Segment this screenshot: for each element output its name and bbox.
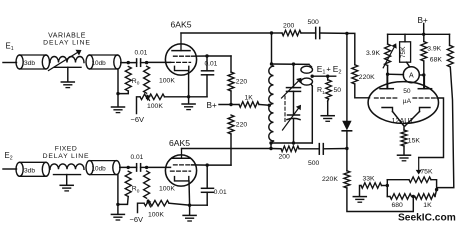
wire varcap column upper xyxy=(293,64,295,88)
potentiometer 100K ch2 xyxy=(144,200,169,206)
wire left tie xyxy=(386,180,388,197)
svg-text:6AK5: 6AK5 xyxy=(169,138,190,148)
attenuator 10db pad (ch1) xyxy=(86,55,121,69)
resistor R0 (ch2) xyxy=(125,171,131,196)
label R1 xyxy=(317,87,325,96)
resistor 15K cathode xyxy=(401,130,407,146)
svg-text:15K: 15K xyxy=(408,137,421,144)
attenuator 3db pad (ch2) xyxy=(16,162,50,176)
wire 200 to 500 (top) xyxy=(301,32,316,34)
label 220 ch1 xyxy=(236,79,248,86)
resistor 200 (mid) xyxy=(281,146,299,152)
label 50 (R1) xyxy=(334,87,342,94)
node cathode2 junction xyxy=(188,204,191,207)
label 68K xyxy=(430,57,443,64)
label 100K grid ch1 xyxy=(159,78,175,85)
watermark SeekIC.com xyxy=(398,213,456,224)
wire 500 to right rail xyxy=(320,32,347,34)
label 200 mid xyxy=(279,153,291,160)
potentiometer 100K ch1 xyxy=(140,94,165,100)
wire 1K right xyxy=(435,190,437,197)
fixed delay line coil xyxy=(50,164,84,169)
node A2 junction xyxy=(127,166,130,169)
resistor 100K grid ch2 xyxy=(144,171,150,198)
node mid rail junction xyxy=(269,147,272,150)
capacitor 500 (top) xyxy=(316,27,320,38)
label 6AK5 V1 xyxy=(171,20,192,30)
node A1 junction xyxy=(127,61,130,64)
resistor 3.9K right xyxy=(421,42,427,62)
svg-text:500: 500 xyxy=(308,160,320,167)
wire pot to -6V ch1 xyxy=(137,97,141,114)
wiper arrow 100K pot ch1 xyxy=(146,94,151,100)
wire rail corner left xyxy=(387,34,389,44)
label 3.9K right xyxy=(427,45,441,52)
svg-text:220: 220 xyxy=(236,122,248,129)
svg-text:−6V: −6V xyxy=(130,215,144,224)
resistor 220K upper xyxy=(347,33,358,84)
label 15K xyxy=(408,137,421,144)
wire 3.9K right to plate xyxy=(423,61,425,89)
svg-text:200: 200 xyxy=(279,153,291,160)
wire 3.9K right top xyxy=(423,34,425,41)
wire V1 plate rail xyxy=(181,32,272,34)
wire cathode1 to bypass cap xyxy=(189,96,207,98)
tube V3 right cathode xyxy=(420,108,431,112)
svg-text:680: 680 xyxy=(392,202,404,209)
ground below V2 cathode xyxy=(183,215,196,221)
svg-text:1K: 1K xyxy=(423,202,432,209)
variable capacitor C2 (tank) xyxy=(287,115,300,120)
resistor 1K cathode bias xyxy=(415,194,435,200)
svg-text:75K: 75K xyxy=(420,169,433,176)
tube V3 left cathode xyxy=(382,108,393,112)
wire 75K bottom row left xyxy=(387,179,409,181)
node 33K junction xyxy=(386,184,389,187)
svg-text:200: 200 xyxy=(283,23,295,30)
svg-text:500: 500 xyxy=(308,19,320,26)
label 0.01 screen ch1 xyxy=(205,61,218,68)
tube V1 control grid (dashed) xyxy=(171,61,191,63)
svg-text:DELAY LINE: DELAY LINE xyxy=(43,40,91,47)
tube V1 plate xyxy=(172,33,190,51)
wire 33K to ground xyxy=(360,186,362,197)
svg-text:10db: 10db xyxy=(92,165,107,172)
label 75K bottom xyxy=(420,169,433,176)
junction R0 ground ch2 xyxy=(116,203,119,206)
label 200 top xyxy=(283,23,295,30)
svg-text:3.9K: 3.9K xyxy=(427,45,441,52)
wire grid1 to tube V1 xyxy=(147,61,171,63)
node left plate junction xyxy=(386,73,389,76)
node right rail top xyxy=(345,32,348,35)
wire coil bottom link xyxy=(270,143,272,149)
svg-text:0.01: 0.01 xyxy=(135,50,148,57)
label 500 top xyxy=(308,19,320,26)
node R1 top junction xyxy=(326,75,329,78)
node right plate junction xyxy=(422,73,425,76)
tube V1 6AK5 envelope xyxy=(165,44,196,75)
wire grid2 to tube V2 xyxy=(147,166,171,168)
svg-text:+: + xyxy=(326,65,331,74)
label B+ (top right) xyxy=(418,16,428,25)
label FIXED DELAY LINE xyxy=(43,145,90,160)
svg-text:3.9K: 3.9K xyxy=(366,50,380,57)
tube V1 screen grid (dashed) xyxy=(174,55,192,57)
wire down to ground ch2 xyxy=(117,204,119,214)
svg-text:0.01: 0.01 xyxy=(214,189,227,196)
junction R0 ground ch1 xyxy=(116,92,119,95)
wire 220K to bottom rail xyxy=(347,188,413,212)
wire 200 to 500 (mid) xyxy=(299,148,319,150)
wire cathode2 to ground xyxy=(189,205,191,215)
label 6AK5 V2 xyxy=(169,138,190,148)
svg-text:33K: 33K xyxy=(363,175,376,182)
wire V1 screen to 220 chain xyxy=(192,56,232,72)
variable delay line shield bar xyxy=(55,66,82,68)
label 3.9K left xyxy=(366,50,380,57)
svg-text:50: 50 xyxy=(334,87,342,94)
label 75K vertical xyxy=(400,46,407,58)
node coupling loop output xyxy=(311,75,314,78)
capacitor 0.01 screen bypass ch2 xyxy=(202,165,214,205)
wire diode to mid rail xyxy=(346,131,348,149)
wire R1 to ground xyxy=(327,101,329,115)
wire link line xyxy=(271,142,312,144)
svg-text:50: 50 xyxy=(403,88,411,95)
tube V2 cathode xyxy=(175,177,189,181)
tube V2 plate xyxy=(172,149,190,159)
ground below R0 ch2 xyxy=(111,214,124,220)
node E2 input terminal xyxy=(5,151,13,162)
svg-text:75K: 75K xyxy=(400,46,407,58)
svg-text:100K: 100K xyxy=(159,186,175,193)
wire pot to cathode ch2 xyxy=(169,203,190,205)
label VARIABLE DELAY LINE xyxy=(43,33,91,47)
ground below fixed delay line xyxy=(60,185,73,191)
wire delay line to ground xyxy=(67,67,69,81)
capacitor 0.01 screen bypass ch1 xyxy=(202,56,214,97)
ground below 15K xyxy=(398,155,411,161)
coupling loop turn 2 xyxy=(301,78,313,85)
label R0 ch1 xyxy=(132,78,140,87)
svg-text:E2: E2 xyxy=(5,151,13,162)
svg-text:−6V: −6V xyxy=(131,115,145,124)
wire pot to -6V ch2 xyxy=(138,203,145,212)
wire 10db to node A2 xyxy=(120,166,137,168)
wire cathodes join xyxy=(393,112,420,131)
attenuator 10db pad (ch2) xyxy=(86,161,120,175)
arrow 75K bottom wiper xyxy=(416,158,422,175)
wire R0 to ground ch1 xyxy=(118,70,128,94)
attenuator 3db pad (ch1) xyxy=(16,55,50,69)
node varcap column bottom xyxy=(292,141,295,144)
label 680 xyxy=(392,202,404,209)
resistor 68K xyxy=(447,46,453,68)
node right tie junction xyxy=(435,188,438,191)
wire V1 cathode down xyxy=(188,71,190,97)
node B+ junction xyxy=(422,33,425,36)
label 220K lower xyxy=(322,176,338,183)
svg-text:A: A xyxy=(409,73,414,80)
svg-text:DELAY LINE: DELAY LINE xyxy=(43,153,90,160)
arrow varcap C1 xyxy=(282,78,302,98)
svg-text:68K: 68K xyxy=(430,57,443,64)
svg-text:3db: 3db xyxy=(24,167,35,174)
wire rail corner right xyxy=(449,34,451,45)
svg-text:R1: R1 xyxy=(317,87,325,96)
node coil tap junction xyxy=(268,104,271,107)
wire 680 row left xyxy=(387,196,390,198)
resistor 1K B+ feed xyxy=(239,102,259,108)
svg-text:100K: 100K xyxy=(159,78,175,85)
wire meter right xyxy=(419,74,424,76)
svg-text:220K: 220K xyxy=(359,74,375,81)
wire tank drop xyxy=(271,33,273,64)
node 680-1K junction xyxy=(412,195,415,198)
svg-text:E2: E2 xyxy=(333,64,342,76)
gang link (dashed) varcaps xyxy=(284,96,286,123)
wire E2 to 3db pad xyxy=(3,168,17,170)
resistor 680 xyxy=(390,194,412,200)
fixed delay line shield bar xyxy=(54,174,81,176)
svg-text:220K: 220K xyxy=(322,176,338,183)
wire 1K to coil tap xyxy=(259,104,269,107)
wire meter left xyxy=(388,73,404,75)
wire B+ stem xyxy=(423,24,425,35)
label -6V ch1 xyxy=(131,115,145,124)
label 100K pot ch2 xyxy=(148,212,164,219)
tube V2 screen grid (dashed) xyxy=(174,164,192,166)
ground below V1 cathode xyxy=(182,104,195,110)
capacitor 0.01 input ch1 xyxy=(137,59,147,66)
wire 33K to junction xyxy=(382,185,388,187)
svg-text:FIXED: FIXED xyxy=(55,145,78,152)
wire between varcaps xyxy=(293,91,295,115)
label 12AU7 xyxy=(392,116,414,125)
svg-text:µA: µA xyxy=(403,98,412,105)
ground below variable delay line xyxy=(61,82,74,88)
resistor R1 50 ohm xyxy=(326,76,332,101)
wire V2 plate rail xyxy=(182,148,272,150)
wire 68K down xyxy=(437,67,454,190)
wire 220K to V3 grid xyxy=(355,84,370,98)
wire E1+E2 output xyxy=(312,75,336,77)
wire fixed line to ground xyxy=(66,175,68,185)
tube V2 6AK5 envelope xyxy=(165,155,196,186)
svg-text:B+: B+ xyxy=(418,16,428,25)
wire V2 screen xyxy=(192,164,232,166)
label R0 ch2 xyxy=(132,186,140,195)
svg-text:100K: 100K xyxy=(148,212,164,219)
resistor 75K meter series (box) xyxy=(400,34,411,67)
resistor 100K grid ch1 xyxy=(144,66,150,93)
node cathode1 junction xyxy=(187,95,190,98)
tube V3 left plate xyxy=(380,74,393,89)
label 0.01 input ch1 xyxy=(135,50,148,57)
node plate rail / tank top xyxy=(270,31,273,34)
svg-text:6AK5: 6AK5 xyxy=(171,20,192,30)
wire top right rail xyxy=(388,33,450,35)
wire varcap column lower xyxy=(293,119,295,143)
svg-text:R0: R0 xyxy=(132,78,140,87)
svg-text:3db: 3db xyxy=(24,60,35,67)
node grid1 junction xyxy=(145,61,148,64)
node 220 B+ junction xyxy=(229,103,232,106)
label 220K upper xyxy=(359,74,375,81)
svg-text:R0: R0 xyxy=(132,186,140,195)
wire R0 to ground ch2 xyxy=(118,175,128,205)
tube V1 cathode xyxy=(175,66,189,70)
ground below 33K xyxy=(353,197,366,203)
wire 15K to ground xyxy=(403,146,405,155)
svg-text:0.01: 0.01 xyxy=(205,61,218,68)
svg-text:1K: 1K xyxy=(245,95,254,102)
wire 220 ch1 to B+ node xyxy=(230,91,232,105)
node right rail mid xyxy=(345,147,348,150)
wire 220 ch2 to V2 screen xyxy=(230,134,232,165)
svg-text:B+: B+ xyxy=(207,101,217,110)
resistor 220K lower xyxy=(344,171,350,188)
label B+ (mid) xyxy=(207,101,217,110)
wire down to ground ch1 xyxy=(117,94,119,107)
wire loop bottom down xyxy=(311,84,312,143)
capacitor 500 (mid) xyxy=(319,144,323,155)
wire E1 to 3db pad xyxy=(3,62,17,64)
label 1K feed xyxy=(245,95,254,102)
rheostat 3.9K left xyxy=(385,44,391,66)
svg-text:10db: 10db xyxy=(92,60,107,67)
wire V3 right grid out xyxy=(419,98,444,158)
wire 75K bottom right xyxy=(431,180,437,190)
wire 3.9K left to plate xyxy=(387,66,389,89)
variable delay line coil xyxy=(50,57,84,63)
node screen2 junction xyxy=(206,163,209,166)
resistor 220 screen ch2 xyxy=(228,115,234,134)
label E1+E2 xyxy=(317,64,342,76)
capacitor 0.01 input ch2 xyxy=(137,164,147,171)
label 1K bottom xyxy=(423,202,432,209)
node varcap column top xyxy=(292,62,295,65)
tube V2 control grid (dashed) xyxy=(171,170,191,172)
tube V3 left grid (dashed) xyxy=(375,97,399,99)
label -6V ch2 xyxy=(130,215,144,224)
wire rail to 200 (mid) xyxy=(271,148,281,150)
svg-text:220: 220 xyxy=(236,79,248,86)
label 50 uA xyxy=(403,88,412,105)
resistor 200 (top) xyxy=(282,30,301,36)
svg-text:0.01: 0.01 xyxy=(131,154,144,161)
wire right rail lower xyxy=(346,149,348,171)
wire right rail upper xyxy=(346,33,348,120)
node E1 input terminal xyxy=(6,42,14,53)
svg-text:E1: E1 xyxy=(317,64,326,76)
arrow varcap C2 xyxy=(283,105,302,130)
tube V3 12AU7 envelope xyxy=(368,82,438,124)
label 500 mid xyxy=(308,160,320,167)
arrow 3.9K left wiper xyxy=(383,43,397,68)
wire cathode2 to bypass cap xyxy=(190,204,208,206)
node screen1 junction xyxy=(205,54,208,57)
ground below R0 ch1 xyxy=(112,107,125,113)
label 100K pot ch1 xyxy=(147,103,163,110)
wire cathode1 to ground xyxy=(188,97,190,104)
diode CR1 xyxy=(342,121,351,131)
inductor L tank coil xyxy=(269,64,274,143)
node tank top junction xyxy=(270,62,273,65)
wire rail to 200 (top) xyxy=(272,32,283,34)
label 220 ch2 xyxy=(236,122,248,129)
svg-text:SeekIC.com: SeekIC.com xyxy=(398,213,456,224)
node coil bottom junction xyxy=(269,141,272,144)
wire V2 cathode down xyxy=(188,181,191,205)
resistor R0 (ch1) xyxy=(125,67,131,92)
label 0.01 input ch2 xyxy=(131,154,144,161)
variable capacitor C1 (tank) xyxy=(287,88,301,92)
potentiometer 75K bottom xyxy=(409,177,431,183)
variable delay line arrow xyxy=(49,50,82,71)
svg-text:VARIABLE: VARIABLE xyxy=(48,33,86,40)
ground below R1 xyxy=(321,116,334,122)
tube V3 right plate xyxy=(418,75,431,89)
wire 500 to right rail (mid) xyxy=(323,148,347,150)
wire tank top horizontal xyxy=(272,64,312,67)
label 100K grid ch2 xyxy=(159,186,175,193)
tube V3 right grid (dashed) xyxy=(413,97,437,99)
label 0.01 screen ch2 xyxy=(214,189,227,196)
label 33K xyxy=(363,175,376,182)
wire B+ feed xyxy=(219,104,239,106)
wire pot to cathode ch1 xyxy=(165,96,189,98)
resistor 220 screen ch1 xyxy=(228,72,234,91)
svg-text:E1: E1 xyxy=(6,42,14,53)
resistor 33K xyxy=(361,183,382,189)
coupling loop turn 1 xyxy=(301,66,313,73)
wire 10db to node A1 xyxy=(121,62,137,64)
wiper arrow 100K pot ch2 xyxy=(146,199,151,207)
node grid2 junction xyxy=(145,166,148,169)
meter A xyxy=(403,67,419,83)
svg-text:100K: 100K xyxy=(147,103,163,110)
